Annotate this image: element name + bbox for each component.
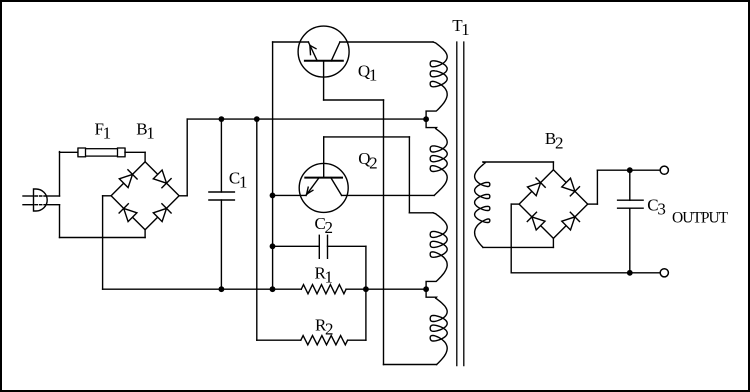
svg-text:C1: C1 [229, 169, 248, 192]
wire C3 bottom [629, 208, 631, 273]
diode B1 bottom-left [124, 208, 137, 221]
transistor Q1 symbol [305, 42, 343, 61]
svg-text:B1: B1 [136, 120, 155, 143]
svg-text:B2: B2 [545, 129, 564, 152]
svg-text:Q1: Q1 [358, 62, 377, 85]
wire top DC rail [187, 118, 426, 120]
wire output bottom rail [511, 272, 660, 274]
fuse F1 [78, 148, 125, 157]
transistor Q1 [298, 26, 349, 77]
inductor T1 primary winding 4 [426, 289, 447, 364]
wire to fuse F1 left [60, 151, 79, 153]
wire Q2 emitter left [273, 194, 307, 196]
node T1 primary tap top [423, 116, 429, 122]
wire R2 left [257, 339, 301, 341]
inductor T1 primary winding 3 [426, 213, 447, 289]
svg-text:T1: T1 [452, 16, 470, 39]
transistor Q2 symbol [305, 178, 342, 196]
wire down to B1 top vertex [144, 152, 146, 162]
wire Q1 collector to T1 [340, 41, 433, 43]
wire R2 right [348, 339, 366, 341]
wire C1 top [220, 119, 222, 192]
wire B2 minus down [510, 204, 512, 273]
wire B1 plus up [186, 119, 188, 196]
diode B2 top-left [528, 183, 541, 196]
resistor R1 [301, 285, 346, 294]
bridge rectifier B1 [111, 162, 179, 230]
wire down to AC bottom [59, 205, 61, 238]
wire Q1 emitter [273, 41, 309, 43]
wire rail to R2 vertical [256, 119, 258, 340]
svg-text:Q2: Q2 [358, 149, 377, 172]
wire bottom DC rail left [103, 288, 302, 290]
wire output top rail [597, 169, 660, 171]
terminal output negative [660, 269, 668, 277]
wire C3 top [629, 170, 631, 200]
wire secondary top to B2 [483, 161, 553, 163]
node C2 left junction [270, 243, 276, 249]
wire secondary bottom to B2 [483, 246, 553, 248]
wire B1 bottom vertex stub [144, 230, 146, 238]
wire B1 minus down [102, 196, 104, 289]
wire B2 top stub [552, 162, 554, 170]
wire plug top to riser [47, 195, 60, 197]
inductor T1 primary winding 1 [426, 42, 447, 119]
transformer T1 core [456, 42, 458, 366]
wire to T1 winding4 bottom [384, 364, 437, 366]
diode B2 bottom-left [532, 217, 545, 230]
diode B1 bottom-right [153, 208, 166, 221]
wire fuse to B1 top [125, 151, 145, 153]
svg-text:C2: C2 [315, 214, 334, 237]
diode B2 top-right [562, 178, 575, 191]
node T1 primary tap bottom [423, 286, 429, 292]
node emitter bus bottom junction [270, 286, 276, 292]
wire Q1 base down [323, 61, 325, 100]
wire bottom DC rail right [346, 288, 426, 290]
wire B1 right stub [179, 195, 187, 197]
svg-text:R2: R2 [315, 315, 334, 338]
node Q2 emitter junction [270, 193, 276, 199]
wire Q2 base up [323, 137, 325, 178]
diode B2 bottom-right [562, 217, 575, 230]
node C1 bottom junction [219, 286, 225, 292]
wire B2 right stub [588, 203, 598, 205]
node C1 top junction [219, 116, 225, 122]
terminal output positive [660, 166, 668, 174]
diode B1 top-right [153, 170, 166, 183]
svg-text:R1: R1 [315, 263, 334, 286]
diode B1 top-left [119, 174, 132, 187]
node C3 bottom junction [627, 270, 633, 276]
AC plug [23, 189, 47, 211]
wire to T1 winding3 top [409, 212, 433, 214]
wire AC bottom [60, 237, 146, 239]
wire Q1 base right [324, 99, 384, 101]
wire C2 left [273, 245, 320, 247]
wire Q2 base vertical [408, 137, 410, 213]
wire C2/R2 vertical [365, 246, 367, 340]
wire emitter bus vertical [272, 42, 274, 289]
inductor T1 secondary winding [475, 162, 490, 247]
capacitor C3 [618, 199, 644, 201]
wire plug bottom [47, 204, 60, 206]
resistor R2 [301, 336, 348, 345]
wire B2 left stub [511, 203, 519, 205]
capacitor C2 [318, 235, 320, 258]
svg-text:F1: F1 [95, 120, 112, 143]
wire C2 right [328, 245, 366, 247]
wire Q2 base right [324, 136, 410, 138]
transistor Q2 [299, 163, 348, 212]
wire riser to fuse [59, 152, 61, 196]
capacitor C1 [209, 191, 235, 193]
svg-text:OUTPUT: OUTPUT [672, 210, 729, 227]
node R1 right junction [363, 286, 369, 292]
wire B1 left stub [103, 195, 112, 197]
inductor T1 primary winding 2 [426, 119, 447, 195]
wire Q1 base vertical [383, 100, 385, 365]
wire C1 bottom [220, 200, 222, 289]
node top rail junction [254, 116, 260, 122]
node C3 top junction [627, 167, 633, 173]
wire Q2 collector to T1 winding2 [342, 194, 434, 196]
svg-text:C3: C3 [647, 196, 666, 219]
wire B2 bottom stub [552, 238, 554, 247]
wire B2 plus up [596, 170, 598, 204]
bridge rectifier B2 [519, 170, 588, 239]
